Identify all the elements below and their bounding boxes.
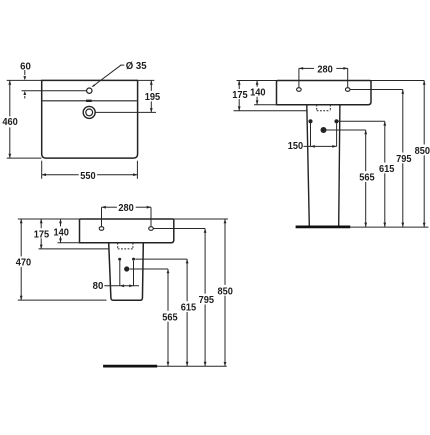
view B: dimension 140 line — [256, 81, 258, 87]
view B: underside extension line — [254, 104, 277, 106]
view A: tap hole centre line — [22, 90, 87, 92]
dimension 460 line — [9, 80, 11, 116]
view C: fixing dot right — [132, 258, 135, 261]
view B: dimension 150 line — [304, 145, 337, 147]
view C: dimension 80 line — [104, 285, 139, 287]
view A: tap hole — [87, 88, 92, 93]
view C: line from tap holes to 795 — [153, 228, 205, 230]
view B: right tap hole — [345, 88, 350, 92]
dimension 550 line — [42, 174, 79, 176]
view A: deck ledge line — [42, 100, 136, 102]
view B: pedestal left side — [307, 105, 310, 226]
dimension 195 line — [150, 80, 152, 91]
svg-text:550: 550 — [80, 171, 96, 182]
svg-text:Ø 35: Ø 35 — [126, 61, 147, 72]
view C: fixing dot left — [118, 258, 121, 261]
view C: dimension 850 line — [224, 219, 226, 285]
view B: floor extension line — [350, 226, 428, 228]
svg-text:795: 795 — [396, 154, 412, 165]
view B: waste outline dashed left — [316, 105, 318, 111]
view A: overflow hole outer — [83, 106, 95, 118]
view C: waste outline dashed right — [132, 243, 134, 249]
view C: dimension 470 line — [20, 219, 22, 256]
svg-text:150: 150 — [288, 141, 304, 152]
view C: right tap hole — [149, 227, 154, 231]
view B: waste outline dashed right — [329, 105, 331, 111]
leader line for tap hole diameter — [120, 64, 124, 66]
dimension 60 line — [24, 70, 26, 75]
view A: bottom extension for 460 — [7, 157, 42, 159]
dimension 550 extension lines — [41, 161, 43, 179]
svg-text:565: 565 — [162, 312, 178, 323]
svg-text:175: 175 — [34, 229, 50, 240]
svg-text:175: 175 — [232, 90, 248, 101]
view C: basin body outline — [80, 219, 174, 243]
view C: left tap hole — [99, 227, 104, 231]
view C: drain dot — [124, 266, 129, 271]
view B: dimension 280 line — [299, 67, 314, 69]
svg-text:140: 140 — [250, 88, 266, 99]
view B: line from drain dot to 565 — [326, 129, 365, 131]
svg-text:850: 850 — [218, 286, 234, 297]
view B: line from fixing dots to 615 — [338, 120, 384, 122]
view C: dimension 140 line — [60, 219, 62, 226]
view B: waste outline dashed bottom — [317, 110, 331, 112]
view B: drain dot — [321, 127, 327, 133]
view B: dimension 615 line — [384, 121, 386, 162]
svg-text:615: 615 — [379, 164, 395, 175]
view C: line from drain dot to 565 — [130, 268, 169, 270]
view B: dimension 175 line — [238, 81, 240, 90]
view C: dimension 795 line — [204, 229, 206, 294]
svg-text:280: 280 — [317, 64, 333, 75]
svg-text:795: 795 — [199, 295, 215, 306]
view C: line from fixing dots to 615 — [135, 258, 187, 260]
view C: semi-pedestal outline — [109, 243, 144, 300]
svg-text:850: 850 — [415, 146, 430, 157]
view A: overflow extension line — [95, 111, 156, 113]
view C: floor line thick — [103, 365, 157, 368]
view B: line from tap holes to 795 — [350, 89, 403, 91]
view B: left tap hole — [297, 88, 302, 92]
view A: overflow hole inner — [86, 109, 93, 116]
view B: basin body outline — [277, 81, 372, 105]
svg-text:195: 195 — [145, 92, 161, 103]
view A: rim extension right — [138, 79, 155, 81]
view C: bowl bottom line — [39, 248, 109, 250]
view B: dimension 850 line — [423, 81, 425, 145]
svg-text:280: 280 — [118, 203, 134, 214]
view B: floor line thick — [296, 225, 351, 228]
view C: rim extension line full — [18, 218, 228, 220]
view C: dimension 80 extension lines — [119, 261, 121, 286]
svg-text:80: 80 — [93, 281, 104, 292]
view A: slot mark under tap hole — [86, 100, 92, 102]
view B: dimension 795 line — [402, 90, 404, 153]
view C: underside extension line — [58, 242, 80, 244]
view B: dimension 565 line — [365, 130, 367, 171]
view B: bowl bottom line — [234, 110, 308, 112]
svg-text:615: 615 — [181, 303, 197, 314]
svg-text:460: 460 — [2, 117, 18, 128]
svg-text:140: 140 — [54, 227, 70, 238]
view B: pedestal right side — [339, 105, 340, 226]
view C: dimension 175 line — [40, 219, 42, 228]
view C: dimension 280 extension lines — [101, 207, 103, 226]
view A: washbasin plan view outline — [42, 80, 138, 158]
view A: rim extension left — [7, 79, 42, 81]
view B: fixing dot right — [334, 119, 338, 123]
view B: fixing dot left — [308, 119, 312, 123]
view B: rim extension line full — [237, 80, 425, 82]
view C: waste outline dashed bottom — [118, 248, 133, 250]
svg-text:60: 60 — [20, 61, 31, 72]
view B: dimension 150 extension lines — [310, 123, 312, 146]
view C: waste outline dashed left — [117, 243, 119, 249]
view C: floor extension line — [157, 365, 227, 367]
view B: dimension 280 extension lines — [298, 68, 300, 87]
svg-text:470: 470 — [16, 258, 32, 269]
svg-text:565: 565 — [359, 173, 375, 184]
view C: dimension 565 line — [167, 269, 169, 311]
view C: extension line at semi-pedestal bottom — [18, 299, 107, 301]
view C: dimension 615 line — [186, 259, 188, 301]
view C: dimension 280 line — [102, 206, 117, 208]
